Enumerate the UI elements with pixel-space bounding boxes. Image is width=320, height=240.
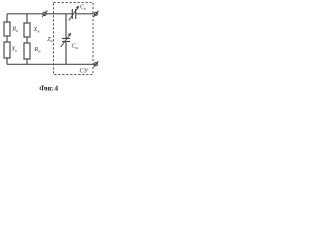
resistor Xм box branch2 upper [24,23,30,37]
capacitor Cш arrow [61,33,72,47]
resistor Xв box branch1 lower [4,42,10,58]
label Rв [11,5,87,54]
terminal top right [94,11,99,17]
wire left vertical drop branch1 [6,14,8,22]
capacitor Cш shunt plates [62,39,70,42]
resistor Rм box branch2 lower [24,43,30,59]
svg-text:Cв: Cв [80,5,86,11]
wire branch1 bottom [6,58,8,64]
wire shunt vertical lower [65,42,67,65]
svg-text:Rм: Rм [34,47,42,53]
wire top right segment [76,13,95,15]
svg-text:Cш: Cш [72,44,79,50]
svg-text:СУ: СУ [80,68,89,75]
svg-text:Rв: Rв [12,27,19,33]
svg-text:Zа: Zа [47,37,52,43]
capacitor Cв series plates [72,9,75,19]
svg-text:Xв: Xв [11,47,18,53]
resistor Rв box branch1 upper [4,22,10,36]
dashed box СУ [54,3,94,75]
wire branch2 bottom [26,59,28,64]
wire branch1 middle [6,36,8,42]
wire top horizontal [7,13,72,15]
wire branch2 top drop [26,14,28,23]
svg-text:Фиг. 4: Фиг. 4 [39,83,58,92]
terminal bottom right [94,61,99,67]
wire bottom horizontal [7,63,95,65]
capacitor Cв arrow [69,6,80,21]
wire shunt vertical upper [65,14,67,39]
node a terminal on top wire [42,11,47,17]
wire branch2 middle [26,37,28,43]
svg-text:Xм: Xм [33,27,41,33]
